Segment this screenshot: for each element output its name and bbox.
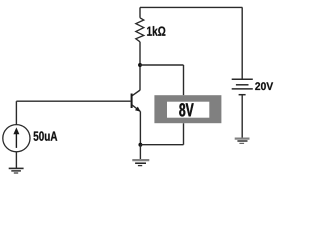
ground middle [132, 160, 149, 166]
battery V1 plate 1 long [232, 78, 253, 80]
node junction dot emitter [138, 143, 142, 147]
resistor R1 zigzag [136, 18, 144, 42]
label 50uA [34, 131, 58, 140]
probe box white inner [167, 102, 209, 118]
wire base from current source [16, 100, 130, 102]
wire current source to base corner [15, 101, 17, 124]
wire emitter junction to probe bottom [140, 144, 183, 146]
transistor Q1 emitter arrowhead [135, 107, 141, 112]
resistor R1 lead bottom / collector feed wire [139, 42, 141, 90]
wire probe bottom vertical [183, 123, 185, 145]
label 8V [179, 103, 193, 116]
transistor Q1 collector diagonal [132, 90, 140, 96]
transistor Q1 base bar [131, 94, 133, 109]
transistor Q1 emitter diagonal [132, 105, 140, 111]
current source I1 arrow shaft [15, 133, 17, 148]
node junction dot collector [138, 63, 142, 67]
resistor R1 lead top [139, 7, 141, 17]
ground left [9, 168, 24, 173]
battery V1 plate 2 short [236, 84, 249, 86]
current source I1 circle [3, 125, 30, 152]
wire battery to ground [241, 95, 243, 139]
battery V1 plate 3 long [232, 88, 253, 90]
wire emitter vertical [139, 112, 141, 145]
wire probe top vertical [183, 65, 185, 95]
label 20V [255, 82, 273, 90]
battery V1 plate 4 short [239, 94, 246, 96]
wire top rail [140, 6, 242, 8]
wire current source to ground [15, 152, 17, 169]
ground right [235, 139, 250, 144]
wire junction to probe top [140, 64, 184, 66]
wire middle ground vertical [139, 145, 141, 160]
current source I1 arrowhead [13, 127, 19, 134]
wire right rail to battery [241, 7, 243, 79]
label 1kΩ [147, 26, 165, 36]
probe box gray [154, 95, 221, 123]
